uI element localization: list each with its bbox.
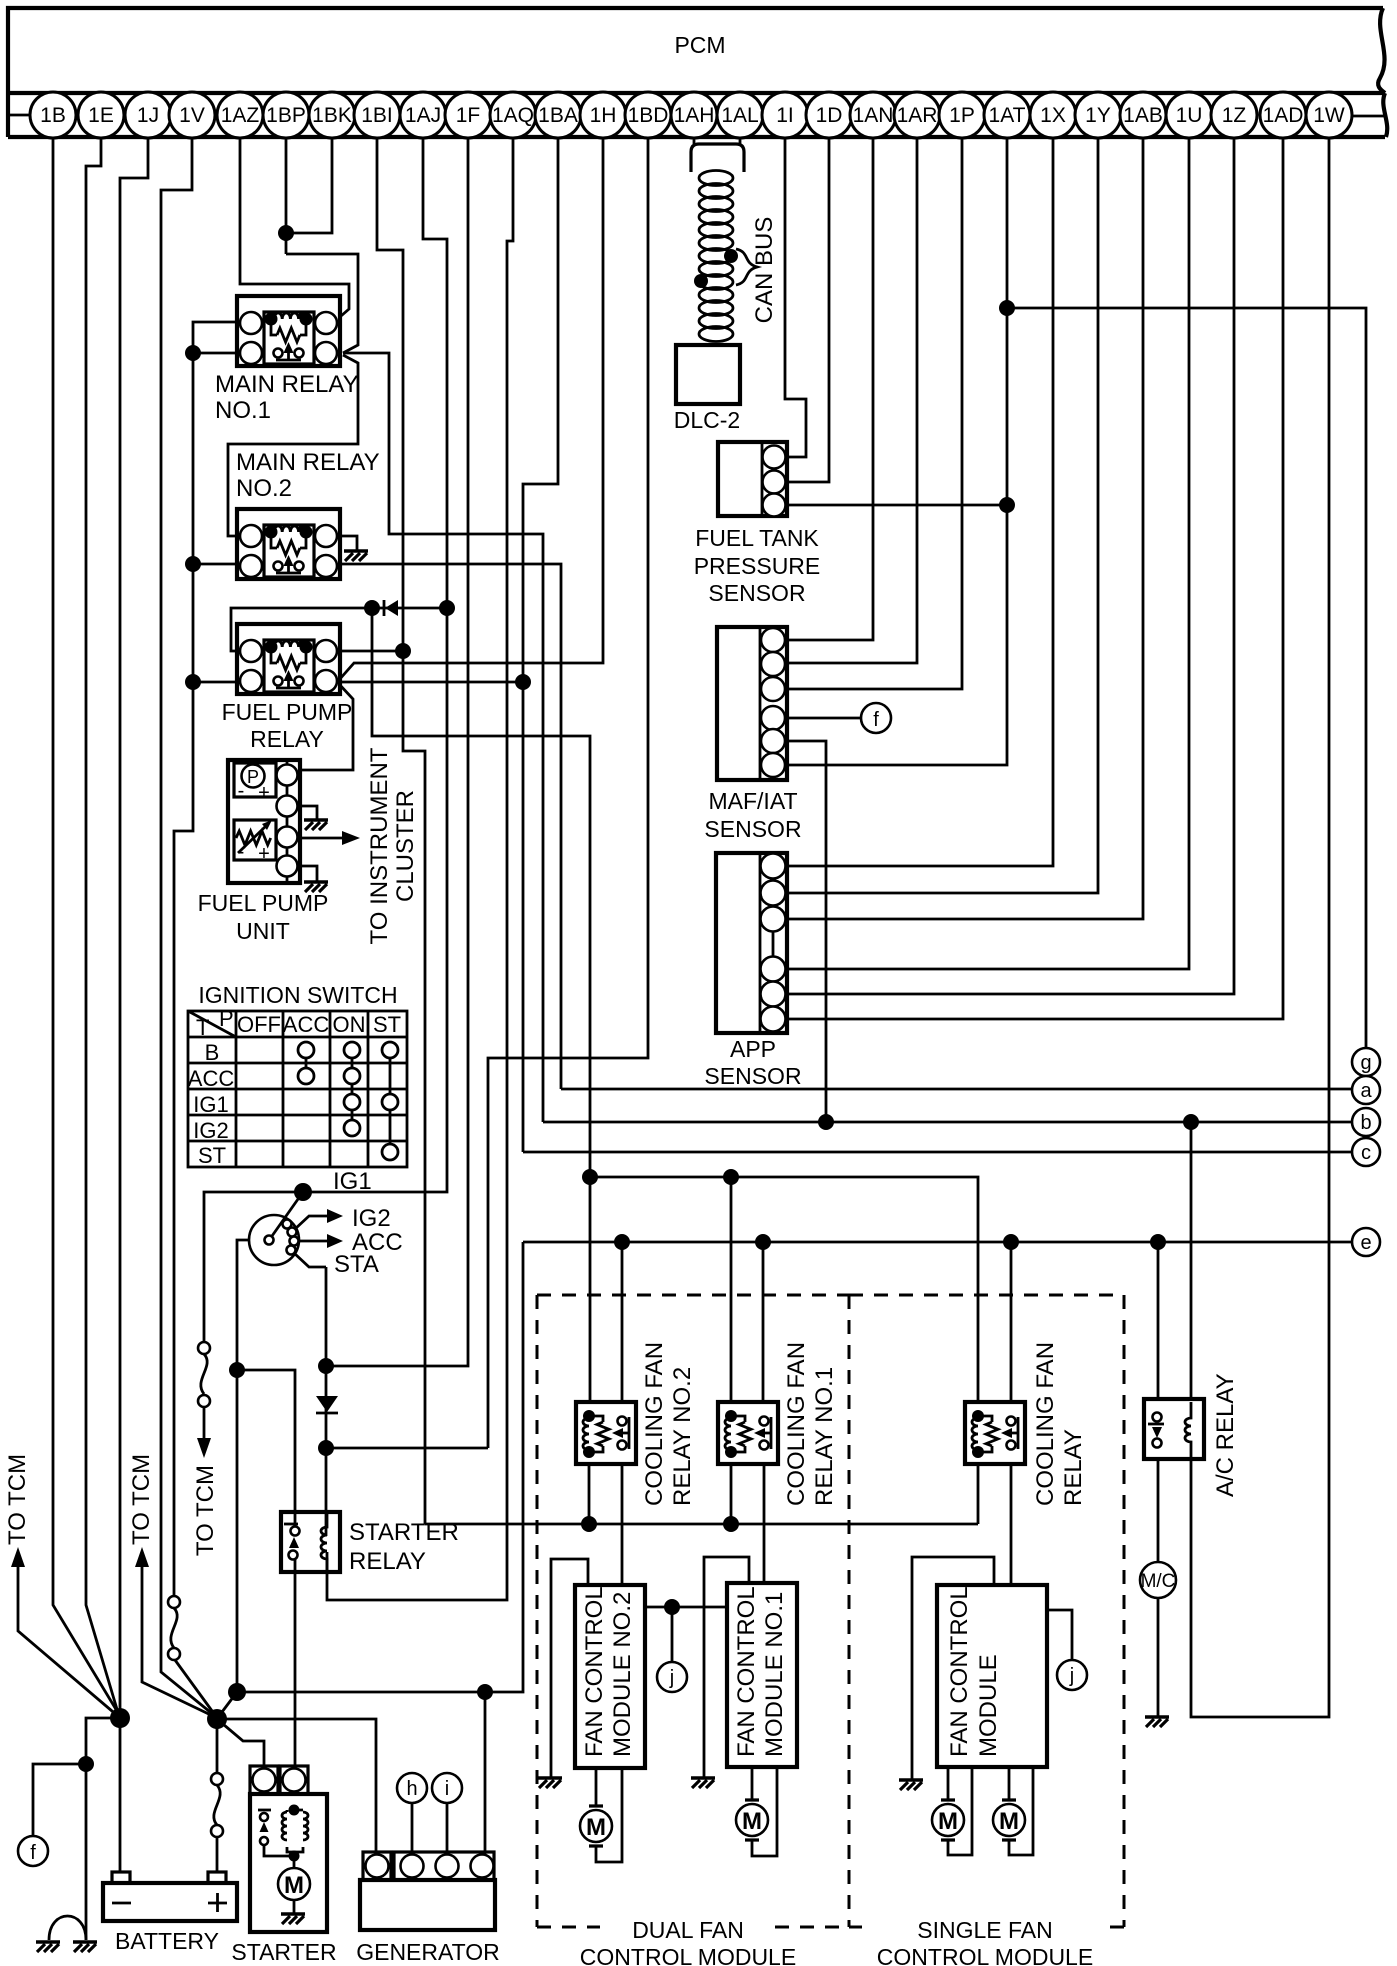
svg-text:CONTROL MODULE: CONTROL MODULE [877, 1944, 1093, 1966]
fan relay coil feed line horizontal [590, 1177, 978, 1402]
circled f MAF [861, 703, 891, 733]
wire 1BK down joining 1BP [286, 138, 332, 233]
svg-text:GENERATOR: GENERATOR [356, 1939, 500, 1965]
svg-text:STARTER: STARTER [349, 1519, 459, 1546]
ground fuel pump unit pin4 [304, 880, 328, 883]
svg-text:1Z: 1Z [1222, 104, 1247, 127]
svg-text:1Y: 1Y [1085, 104, 1111, 127]
svg-text:T: T [196, 1015, 209, 1040]
wire module no.2 to motor loop [596, 1768, 622, 1862]
svg-text:STA: STA [334, 1251, 379, 1278]
svg-text:MAIN RELAY: MAIN RELAY [236, 449, 380, 476]
wire generator feed down to generator pin4 [484, 1692, 487, 1854]
svg-text:PRESSURE: PRESSURE [694, 553, 821, 579]
ground symbol arc right [73, 1940, 97, 1943]
svg-text:1BP: 1BP [266, 104, 306, 127]
junction dot 1BA tap [515, 674, 531, 690]
wire rotary to ACC arrow [298, 1240, 330, 1243]
svg-text:IG1: IG1 [333, 1168, 372, 1195]
MAF/IAT sensor connector [717, 627, 787, 780]
APP sensor connector [716, 853, 787, 1033]
svg-text:1AH: 1AH [674, 104, 715, 127]
motor single fan B [993, 1800, 1025, 1840]
wire cooling fan relay no.2 switch to module [621, 1464, 624, 1585]
junction dot A2 above battery junction [228, 1683, 246, 1701]
wire fuel pump relay coil top-right pin to 1BI tap [337, 650, 403, 653]
relay K2 MAIN RELAY NO.2 [237, 509, 340, 579]
wire 1AJ down to IG1 line [204, 138, 447, 1343]
ground main relay no.2 [344, 549, 368, 552]
junction dot IG1 rotary arm [294, 1183, 312, 1201]
wire fan relay coil feed from diode line [372, 608, 590, 1402]
box FAN CONTROL MODULE NO.1 [727, 1583, 797, 1767]
svg-text:1BD: 1BD [628, 104, 669, 127]
svg-text:f: f [873, 709, 879, 731]
svg-text:1X: 1X [1040, 104, 1066, 127]
relay COOLING FAN RELAY single [965, 1402, 1025, 1464]
PCM pin 1Z [1211, 92, 1257, 138]
junction dot b-line MAF pin5 [818, 1114, 834, 1130]
wire 1F down to STA junction [326, 138, 468, 1366]
wire fuel pump relay bottom-right pin to 1BA tap [341, 681, 523, 684]
svg-text:RELAY: RELAY [349, 1548, 426, 1575]
circle g [1352, 1048, 1380, 1076]
DLC-2 connector box [676, 345, 740, 404]
wire 1W down right side to A/C relay coil return [1191, 138, 1329, 1717]
wire chain to main relay no.2 bottom-left pin [193, 563, 240, 566]
starter [250, 1766, 327, 1932]
relay coil return bus horizontal [425, 1523, 978, 1526]
PCM pin 1AQ [490, 92, 536, 138]
PCM pin 1F [445, 92, 491, 138]
wire 1BP down to junction with 1BK [285, 138, 288, 254]
diode starter line [316, 1396, 338, 1413]
svg-text:TO TCM: TO TCM [128, 1454, 155, 1545]
svg-text:FUEL PUMP: FUEL PUMP [198, 890, 329, 916]
wire 1B down to battery junction A [53, 138, 120, 1716]
svg-text:FAN CONTROL: FAN CONTROL [733, 1586, 760, 1757]
svg-text:MODULE NO.2: MODULE NO.2 [609, 1592, 636, 1757]
wire main relay no.2 top-right pin to ground [341, 536, 357, 551]
junction dot 1AT fuel tank pressure sensor pin3 [999, 497, 1015, 513]
wire 1AN to MAF pin1 [787, 138, 873, 640]
junction dot CAN right [724, 249, 738, 263]
wire single module to circled j [1047, 1610, 1072, 1660]
wire 1AT down to MAF pin6 [787, 138, 1007, 765]
PCM pin 1BD [625, 92, 671, 138]
svg-text:1AN: 1AN [853, 104, 894, 127]
wire MAF pin5 down to b-line [787, 741, 826, 1122]
ground arc strap [49, 1916, 86, 1940]
PCM pin 1D [806, 92, 852, 138]
svg-text:BATTERY: BATTERY [115, 1928, 219, 1954]
PCM pin 1AR [894, 92, 940, 138]
generator [360, 1852, 495, 1930]
svg-text:1P: 1P [949, 104, 975, 127]
svg-text:1AB: 1AB [1123, 104, 1163, 127]
net e horizontal line to circle e [523, 1241, 1353, 1244]
arrow TO TCM no.2 [142, 1564, 215, 1717]
wire junction A2 diagonal to battery junction B [219, 1692, 237, 1716]
PCM pin 1AD [1260, 92, 1306, 138]
M/C motor circle [1140, 1562, 1176, 1598]
PCM pin 1W [1306, 92, 1352, 138]
svg-text:NO.2: NO.2 [236, 475, 292, 502]
circle e [1352, 1228, 1380, 1256]
relay K3 FUEL PUMP RELAY [237, 624, 340, 694]
svg-text:MAIN RELAY: MAIN RELAY [215, 371, 359, 398]
svg-text:FUEL TANK: FUEL TANK [695, 525, 819, 551]
wire 1BP/1BK junction to main relay no.1 bottom-right pin [286, 254, 358, 353]
svg-text:FAN CONTROL: FAN CONTROL [946, 1586, 973, 1757]
svg-text:1E: 1E [88, 104, 114, 127]
wire fuel pump unit pin4 to ground [298, 866, 317, 882]
svg-text:j: j [669, 1667, 674, 1689]
PCM pin 1H [580, 92, 626, 138]
junction dot chain at fuel pump relay bottom-left [185, 674, 201, 690]
circled h [397, 1773, 427, 1803]
wire branch to starter relay switch [237, 1370, 295, 1528]
svg-text:SENSOR: SENSOR [708, 580, 805, 606]
PCM pin 1AB [1120, 92, 1166, 138]
svg-text:A/C RELAY: A/C RELAY [1212, 1373, 1239, 1497]
svg-text:g: g [1360, 1052, 1371, 1074]
relay A/C RELAY [1144, 1399, 1204, 1459]
wire to circled f [33, 1764, 86, 1836]
junction dot 1AT g branch [999, 300, 1015, 316]
junction dot CAN left [694, 274, 708, 288]
wire fuel tank pressure sensor pin3 [787, 504, 1007, 507]
svg-text:ST: ST [373, 1012, 401, 1037]
svg-text:COOLING FAN: COOLING FAN [1032, 1342, 1059, 1506]
wire fuse to TO TCM arrow down [203, 1407, 206, 1440]
wire 1J down to junction A then battery negative [120, 138, 148, 1872]
svg-text:FAN CONTROL: FAN CONTROL [581, 1586, 608, 1757]
junction dot j no.2 [664, 1599, 680, 1615]
wire fusible link no.2 to junction B [175, 1660, 215, 1715]
circled j single [1057, 1660, 1087, 1690]
PCM pin 1X [1030, 92, 1076, 138]
junction dot bus cooling fan relay no.1 coil [723, 1516, 739, 1532]
relay STARTER RELAY [281, 1512, 340, 1572]
svg-text:b: b [1360, 1112, 1371, 1134]
svg-text:RELAY NO.2: RELAY NO.2 [669, 1367, 696, 1506]
svg-text:MODULE NO.1: MODULE NO.1 [761, 1592, 788, 1757]
motor fan no.2 [580, 1806, 612, 1846]
wire e to single cooling fan relay switch [1010, 1242, 1013, 1402]
svg-text:M: M [742, 1808, 762, 1835]
PCM pin 1J [125, 92, 171, 138]
svg-text:CONTROL MODULE: CONTROL MODULE [580, 1944, 796, 1966]
PCM pin 1BP [263, 92, 309, 138]
wire junction A to f-circle branch and ground [86, 1718, 120, 1940]
junction dot feed line left end [582, 1169, 598, 1185]
wire 1X to APP pin1 [787, 138, 1053, 866]
wire ignition switch pivot to junction A [237, 1240, 265, 1692]
wire module no.1 to motor loop [752, 1767, 777, 1856]
wire relay chain down through fusible link to battery junction B [174, 682, 193, 1597]
svg-text:STARTER: STARTER [231, 1939, 336, 1965]
wire single cooling fan relay switch to module [1010, 1464, 1013, 1585]
svg-text:1AQ: 1AQ [492, 104, 534, 127]
wire module no.2 ground pin [551, 1559, 588, 1778]
PCM pin 1AL [717, 92, 763, 138]
svg-text:OFF: OFF [237, 1012, 281, 1037]
relay COOLING FAN RELAY NO.2 [576, 1402, 636, 1464]
ignition rotary switch [249, 1192, 303, 1265]
PCM pin 1V [169, 92, 215, 138]
junction dot 1BP/1BK [278, 225, 294, 241]
svg-text:1U: 1U [1176, 104, 1203, 127]
wire module no.2 bridge to module no.1 and circled j [645, 1607, 727, 1662]
wire diode junction down to starter relay coil [325, 1448, 328, 1536]
svg-text:MODULE: MODULE [975, 1654, 1002, 1757]
wire module no.1 ground pin [704, 1557, 749, 1778]
svg-text:RELAY: RELAY [1060, 1429, 1087, 1506]
wire 1BI down to relay coil return bus [377, 138, 425, 1524]
net c horizontal line to circle c [523, 1151, 1353, 1154]
svg-text:-: - [238, 780, 245, 802]
wire main relay no.1 bottom-right pin to b-line riser [343, 353, 543, 1122]
junction dot chain at main relay no.2 bottom-left [185, 556, 201, 572]
wire single cooling fan relay coil to bus [977, 1464, 980, 1524]
wire diode bottom to 1BD riser [326, 1447, 488, 1450]
svg-text:1V: 1V [179, 104, 205, 127]
wire junction B to generator pin1 [217, 1719, 376, 1854]
wire single module ground pin [912, 1557, 994, 1780]
wire 1BD down-jog to diode junction [488, 138, 648, 1448]
fuel sender resistor cell [234, 820, 276, 860]
arrow TO TCM no.1 [18, 1564, 119, 1717]
wire fuel pump unit pin2 to ground [298, 806, 317, 820]
svg-text:ACC: ACC [283, 1012, 330, 1037]
svg-text:SENSOR: SENSOR [704, 816, 801, 842]
svg-text:j: j [1069, 1665, 1074, 1687]
junction dot chain at main relay no.1 bottom-left [185, 345, 201, 361]
dashed box DUAL FAN CONTROL MODULE [537, 1295, 849, 1927]
svg-text:M: M [586, 1814, 606, 1841]
wire cooling fan relay no.2 coil to bus [588, 1464, 591, 1524]
box FAN CONTROL MODULE NO.2 [575, 1585, 645, 1768]
svg-text:B: B [205, 1040, 220, 1065]
wire junction B to starter pin1 [217, 1719, 264, 1766]
box FAN CONTROL MODULE single [937, 1585, 1047, 1767]
wire chain to main relay no.1 bottom-left pin [193, 352, 240, 355]
relay COOLING FAN RELAY NO.1 [718, 1402, 778, 1464]
svg-text:1AJ: 1AJ [405, 104, 441, 127]
wire 1BA down to c-line riser [523, 138, 558, 1152]
circled i [432, 1773, 462, 1803]
wire stub left edge to pin 1B [8, 114, 30, 117]
ground module no.2 [538, 1776, 562, 1779]
net a horizontal line to circle a [561, 1088, 1353, 1091]
wire fuel pump unit pin3 instrument cluster arrow [298, 837, 347, 840]
svg-text:1B: 1B [40, 104, 66, 127]
wire e to A/C relay switch [1157, 1242, 1160, 1399]
junction dot starter relay branch [229, 1362, 245, 1378]
PCM box [8, 8, 1387, 137]
svg-text:1AD: 1AD [1263, 104, 1304, 127]
svg-text:TO TCM: TO TCM [4, 1454, 31, 1545]
wire e to cooling fan relay no.1 switch [762, 1242, 765, 1402]
wire cooling fan relay no.1 coil to bus [730, 1464, 733, 1524]
svg-text:IG2: IG2 [193, 1118, 228, 1143]
starter switch [258, 1809, 271, 1812]
junction dot e A/C relay [1150, 1234, 1166, 1250]
wire junction A2 horizontal to e-riser [237, 1242, 523, 1692]
svg-text:+: + [258, 782, 270, 804]
svg-text:IGNITION SWITCH: IGNITION SWITCH [198, 982, 397, 1008]
motor fan no.1 [736, 1800, 768, 1840]
PCM pin 1BI [354, 92, 400, 138]
svg-text:ST: ST [198, 1143, 226, 1168]
svg-text:M: M [284, 1872, 304, 1899]
wire 1AH to CAN plug [693, 138, 696, 144]
svg-text:1AZ: 1AZ [221, 104, 260, 127]
PCM pin 1I [762, 92, 808, 138]
PCM pin 1U [1166, 92, 1212, 138]
svg-text:CLUSTER: CLUSTER [392, 790, 419, 902]
svg-text:i: i [445, 1778, 449, 1800]
starter coils [289, 1805, 300, 1816]
PCM pin 1AN [850, 92, 896, 138]
fuel tank pressure sensor connector [718, 442, 787, 517]
PCM pin 1BK [309, 92, 355, 138]
svg-text:DUAL FAN: DUAL FAN [632, 1917, 744, 1943]
fusible link no.2 [168, 1596, 180, 1660]
svg-text:APP: APP [730, 1036, 776, 1062]
fuel pump unit [228, 760, 300, 883]
wire i to generator pin3 [446, 1803, 449, 1854]
fuse TO TCM no.3 [198, 1342, 210, 1407]
wire main relay no.2 bottom-right pin to a-line riser [341, 564, 561, 1089]
ignition switch table [188, 1011, 407, 1167]
ground module no.1 [691, 1776, 715, 1779]
svg-text:-: - [238, 841, 245, 863]
wire rotary to STA [294, 1253, 326, 1267]
wire feed to cooling fan relay no.1 coil [730, 1177, 733, 1402]
junction dot 1BI fuel pump relay coil [395, 643, 411, 659]
junction dot e single cooling fan relay [1003, 1234, 1019, 1250]
wire starter relay coil bottom to 1AQ [327, 138, 513, 1600]
svg-text:FUEL PUMP: FUEL PUMP [222, 699, 353, 725]
svg-text:1I: 1I [776, 104, 794, 127]
wire starter relay switch down to starter pin2 [294, 1556, 297, 1766]
PCM pin 1B [30, 92, 76, 138]
CAN bus brace [736, 249, 757, 285]
ground fuel pump unit pin2 [304, 818, 328, 821]
svg-text:PCM: PCM [674, 32, 725, 58]
svg-text:ACC: ACC [188, 1066, 235, 1091]
junction dot STA diode top [318, 1358, 334, 1374]
ignition switch table texts [188, 1006, 401, 1168]
wire 1U to APP pin4 [787, 138, 1189, 969]
CAN bus plug [691, 144, 744, 172]
wire 1AT to circle g [1007, 308, 1366, 1048]
wire 1P to MAF pin3 [787, 138, 962, 689]
svg-text:1D: 1D [816, 104, 843, 127]
junction dot b-line A/C relay coil [1183, 1114, 1199, 1130]
junction dot diode bottom [318, 1440, 334, 1456]
svg-text:1F: 1F [456, 104, 481, 127]
ground single module [899, 1778, 923, 1781]
motor single fan A [932, 1800, 964, 1840]
wire 1AD to APP pin6 [787, 138, 1283, 1019]
PCM pin 1BA [535, 92, 581, 138]
junction dot diode line 1AJ [439, 600, 455, 616]
svg-text:RELAY NO.1: RELAY NO.1 [811, 1367, 838, 1506]
wire single module motor2 loop [1009, 1767, 1033, 1855]
svg-text:M: M [999, 1808, 1019, 1835]
svg-text:c: c [1361, 1142, 1371, 1164]
ground symbol arc left [36, 1940, 60, 1943]
svg-text:h: h [406, 1778, 417, 1800]
wire A/C relay to M/C [1157, 1459, 1160, 1562]
PCM pin 1E [78, 92, 124, 138]
PCM pin 1AJ [400, 92, 446, 138]
fusible link battery [211, 1773, 223, 1837]
ground M/C [1145, 1715, 1169, 1718]
svg-text:a: a [1360, 1080, 1372, 1102]
svg-text:f: f [30, 1842, 36, 1864]
svg-text:1BA: 1BA [538, 104, 578, 127]
wire 1H down to fuel pump relay bottom-right pin [339, 138, 603, 680]
wire 1Z to APP pin5 [787, 138, 1234, 994]
svg-text:MAF/IAT: MAF/IAT [708, 788, 797, 814]
battery junction dot B [207, 1709, 227, 1729]
arrow head TO TCM no.3 [197, 1438, 211, 1458]
svg-text:1H: 1H [590, 104, 617, 127]
wire MAF pin4 to circled f [787, 717, 861, 720]
pump motor P cell [234, 763, 276, 797]
PCM pin 1Y [1075, 92, 1121, 138]
svg-text:IG1: IG1 [193, 1092, 228, 1117]
svg-text:1AL: 1AL [721, 104, 758, 127]
circle b [1352, 1108, 1380, 1136]
dashed box SINGLE FAN CONTROL MODULE [849, 1295, 1124, 1927]
junction dot diode line fan feed [364, 600, 380, 616]
circle c [1352, 1138, 1380, 1166]
junction dot generator feed [477, 1684, 493, 1700]
svg-text:ON: ON [333, 1012, 366, 1037]
net b horizontal line to circle b [543, 1121, 1353, 1124]
wire 1D to fuel tank pressure sensor pin2 [787, 138, 829, 482]
svg-text:TO TCM: TO TCM [192, 1465, 219, 1556]
junction dot feed line cooling fan relay no.1 [723, 1169, 739, 1185]
wire e to cooling fan relay no.2 switch [621, 1242, 624, 1402]
wire 1E down-jog to battery junction A [86, 138, 119, 1716]
svg-text:DLC-2: DLC-2 [674, 407, 740, 433]
wire 1AR to MAF pin2 [787, 138, 917, 663]
svg-text:NO.1: NO.1 [215, 397, 271, 424]
wire 1Y to APP pin2 [787, 138, 1098, 893]
battery [103, 1872, 237, 1921]
wire h to generator pin2 [411, 1803, 414, 1854]
svg-text:IG2: IG2 [352, 1205, 391, 1232]
PCM pin 1P [939, 92, 985, 138]
battery junction dot A [110, 1708, 130, 1728]
svg-text:SINGLE FAN: SINGLE FAN [917, 1917, 1052, 1943]
wire 1AL to CAN plug [739, 138, 742, 144]
wire chain to fuel pump relay bottom-left pin [193, 681, 240, 684]
junction dot e cooling fan relay no.2 [614, 1234, 630, 1250]
wire stub pin 1W to torn edge [1352, 115, 1384, 118]
ground starter motor [281, 1912, 305, 1915]
wire fuel pump relay bottom-right pin to fuel pump unit pin1 [301, 684, 353, 770]
wire rotary to IG2 arrow [295, 1216, 330, 1229]
PCM pin 1AT [984, 92, 1030, 138]
svg-text:1J: 1J [137, 104, 159, 127]
